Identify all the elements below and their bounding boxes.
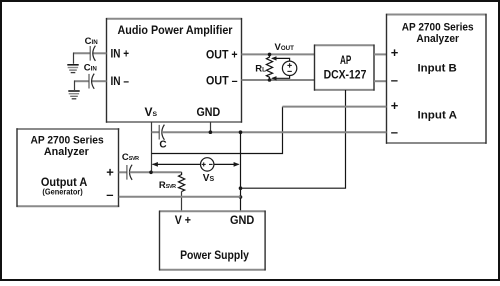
block: AP 2700 Series Analyzer (generator) (16, 128, 119, 207)
svg-text:–: – (391, 125, 398, 140)
svg-text:GND: GND (197, 107, 221, 119)
svg-text:+: + (391, 45, 399, 60)
wire Output A- to GND bus (119, 196, 241, 198)
svg-text:OUT –: OUT – (206, 75, 238, 87)
svg-text:Input A: Input A (418, 110, 458, 122)
svg-text:DCX-127: DCX-127 (324, 67, 367, 81)
junction dot (GND pin) (209, 130, 213, 134)
source Vs circle (201, 158, 214, 171)
capacitor C (159, 125, 164, 140)
svg-text:Power Supply: Power Supply (180, 250, 249, 262)
wire Vs node to C (152, 131, 160, 133)
svg-text:(Generator): (Generator) (42, 187, 83, 196)
svg-text:–: – (391, 73, 398, 88)
svg-text:C: C (159, 140, 166, 151)
svg-text:GND: GND (230, 215, 254, 227)
wire OUT+ (242, 53, 315, 55)
svg-text:Input B: Input B (418, 63, 457, 75)
block: AP 2700 Series Analyzer (inputs) (386, 14, 487, 144)
svg-text:IN –: IN – (111, 76, 130, 88)
junction dot (Output A- tap) (239, 195, 243, 199)
block U2: AP DCX-127 (314, 45, 375, 91)
svg-text:AP: AP (340, 53, 351, 67)
resistor RSVR (179, 172, 185, 191)
wire GND pin vertical (210, 122, 212, 132)
capacitor C_IN (top) (90, 46, 95, 61)
source VOUT meter leads (273, 58, 290, 78)
junction dot (DCX ground tap) (239, 186, 243, 190)
svg-text:+: + (106, 165, 114, 180)
svg-text:Audio Power Amplifier: Audio Power Amplifier (118, 23, 233, 37)
junction dot (Vs node) (149, 171, 153, 175)
source VOUT circle (282, 61, 296, 75)
svg-text:IN +: IN + (111, 48, 130, 60)
wire DCX to Input B+ (374, 53, 387, 55)
svg-text:+: + (391, 98, 399, 113)
junction dot (GND bus top) (239, 130, 243, 134)
wire RSVR to V+ (181, 192, 183, 212)
junction dot (RL bottom) (268, 78, 272, 82)
svg-text:AP 2700 Series: AP 2700 Series (402, 21, 474, 33)
capacitor CSVR (127, 165, 132, 180)
svg-text:V +: V + (175, 215, 191, 227)
ground (IN-) (68, 91, 79, 99)
block: Power Supply (159, 211, 266, 271)
wire Vs pin vertical (151, 122, 153, 172)
ground (IN+) (67, 65, 78, 73)
svg-text:OUT +: OUT + (206, 50, 238, 62)
wire OUT- (242, 79, 315, 81)
wire GND net to Input A- (162, 131, 387, 133)
wire CSVR to Vs node and RSVR (130, 171, 182, 173)
svg-text:–: – (106, 187, 113, 202)
svg-text:Analyzer: Analyzer (44, 146, 89, 158)
wire DCX to Input B- (374, 80, 387, 82)
wire GND bus vertical (black return) (240, 132, 242, 211)
junction dot (RL top) (268, 53, 272, 57)
wire DCX ground lead (241, 90, 346, 188)
capacitor C_IN (bottom) (89, 74, 94, 89)
wire Vs to Input A+ (black return) (152, 107, 283, 154)
Vs ripple measure arrow (153, 163, 239, 165)
amplifier block U1: Audio Power Amplifier (106, 18, 242, 123)
svg-text:Analyzer: Analyzer (416, 33, 459, 45)
resistor RL (266, 54, 272, 80)
wire Input A+ horizontal (283, 106, 387, 108)
wire IN- (74, 80, 89, 82)
wire Output A+ (119, 171, 127, 173)
svg-text:AP 2700 Series: AP 2700 Series (31, 134, 104, 146)
wire IN+ (73, 52, 90, 54)
